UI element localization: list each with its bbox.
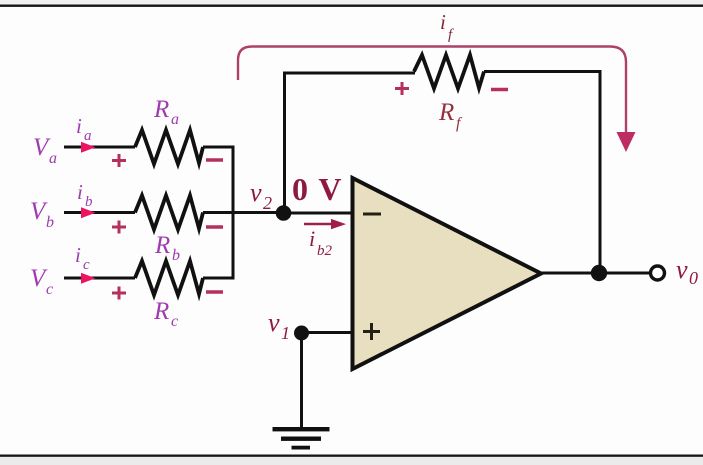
wire output bbox=[541, 272, 651, 275]
svg-text:b: b bbox=[172, 247, 180, 264]
label Vc bbox=[30, 265, 53, 298]
op-amp inverting pin label bbox=[363, 213, 381, 216]
polarity minus Rf bbox=[491, 88, 508, 91]
op-amp U1 bbox=[353, 178, 542, 369]
wire summing bus bbox=[232, 146, 235, 280]
op-amp non-inverting pin label bbox=[363, 323, 380, 340]
polarity minus Rc bbox=[206, 290, 223, 293]
terminal vo bbox=[651, 266, 665, 280]
label 0 V bbox=[292, 171, 343, 207]
svg-text:a: a bbox=[84, 128, 92, 144]
svg-text:0: 0 bbox=[689, 268, 698, 288]
svg-text:i: i bbox=[309, 226, 315, 251]
svg-text:R: R bbox=[153, 298, 169, 325]
svg-text:b2: b2 bbox=[317, 243, 333, 259]
svg-text:i: i bbox=[75, 243, 81, 267]
resistor Rb bbox=[135, 196, 203, 230]
polarity plus Rf bbox=[395, 82, 409, 95]
label ib bbox=[77, 180, 93, 210]
polarity plus Ra bbox=[112, 154, 126, 167]
label ic bbox=[75, 243, 90, 273]
label Va bbox=[33, 134, 57, 167]
label v1 bbox=[268, 308, 290, 343]
resistor Ra bbox=[135, 130, 203, 164]
label ib2 bbox=[309, 226, 333, 259]
label Ra bbox=[153, 96, 179, 128]
current loop if bbox=[238, 47, 636, 153]
label vo bbox=[676, 255, 698, 288]
label Rc bbox=[153, 298, 178, 330]
wire Rc to bus bbox=[203, 277, 235, 280]
svg-text:2: 2 bbox=[263, 193, 272, 213]
wire Rf to output branch bbox=[484, 70, 602, 73]
svg-text:b: b bbox=[85, 194, 93, 210]
label Vb bbox=[30, 198, 54, 231]
svg-text:v: v bbox=[268, 308, 280, 337]
label ia bbox=[76, 114, 92, 144]
resistor Rf bbox=[414, 55, 484, 89]
svg-text:c: c bbox=[83, 257, 90, 273]
current arrow ib2 bbox=[304, 219, 346, 229]
svg-text:R: R bbox=[154, 232, 170, 259]
ground bbox=[273, 427, 330, 450]
wire v2 to inverting input bbox=[283, 212, 352, 215]
wire Ra to bus bbox=[203, 146, 235, 149]
current arrow ic bbox=[81, 273, 96, 284]
label if bbox=[440, 10, 454, 43]
svg-text:0 V: 0 V bbox=[292, 171, 343, 207]
wire Vc lead bbox=[64, 277, 135, 280]
label v2 bbox=[250, 178, 272, 213]
svg-text:c: c bbox=[171, 313, 178, 330]
polarity plus Rc bbox=[112, 287, 126, 300]
svg-text:i: i bbox=[440, 10, 446, 34]
polarity minus Ra bbox=[206, 158, 223, 161]
svg-text:R: R bbox=[438, 99, 454, 126]
polarity minus Rb bbox=[206, 225, 223, 228]
label Rb bbox=[154, 232, 180, 264]
svg-text:R: R bbox=[153, 96, 169, 123]
svg-text:c: c bbox=[46, 281, 53, 298]
wire feedback top bbox=[285, 72, 416, 75]
current arrow ib bbox=[81, 207, 96, 218]
current arrow ia bbox=[81, 142, 96, 153]
wire Vb lead bbox=[64, 211, 135, 214]
resistor Rc bbox=[135, 261, 203, 295]
node v2 junction bbox=[276, 205, 292, 221]
wire Va lead bbox=[64, 146, 135, 149]
wire v1 to non-inverting input bbox=[301, 331, 352, 334]
svg-text:1: 1 bbox=[281, 323, 290, 343]
wire v1 to ground bbox=[300, 333, 303, 427]
polarity plus Rb bbox=[112, 221, 126, 234]
svg-text:v: v bbox=[676, 255, 688, 284]
svg-text:i: i bbox=[76, 114, 82, 138]
node v1 junction bbox=[294, 326, 309, 341]
label Rf bbox=[438, 99, 463, 132]
svg-text:v: v bbox=[250, 178, 262, 207]
wire feedback right drop bbox=[599, 72, 602, 274]
wire Rb to node v2 bbox=[203, 211, 283, 214]
svg-text:a: a bbox=[171, 111, 179, 128]
svg-text:i: i bbox=[77, 180, 83, 204]
node output junction bbox=[591, 265, 607, 281]
svg-text:a: a bbox=[49, 150, 57, 167]
svg-text:b: b bbox=[46, 214, 54, 231]
wire v2 riser bbox=[283, 72, 286, 214]
